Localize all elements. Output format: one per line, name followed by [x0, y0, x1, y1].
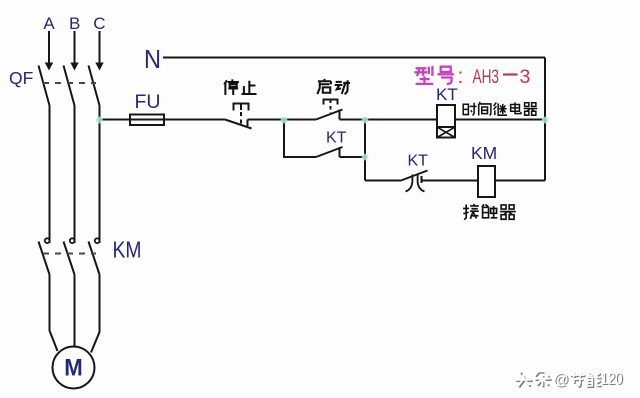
contact KT self-hold blade: [316, 147, 343, 157]
label KM main contacts: [113, 237, 142, 263]
label KT delay contact: [408, 153, 429, 170]
arrowhead phase A: [45, 63, 53, 71]
wire motor lead B: [74, 275, 76, 347]
wire phase C drop: [99, 31, 101, 63]
svg-text:QF: QF: [9, 68, 33, 88]
label motor M: [64, 355, 83, 382]
contactor KM pole 1 fixed contact hook: [45, 238, 50, 243]
wire phase C vertical: [99, 106, 101, 244]
pushbutton start actuator: [324, 100, 338, 114]
label phase C: [93, 14, 105, 33]
wire self-hold to mid vertical: [340, 156, 366, 158]
svg-text:AH3: AH3: [473, 66, 500, 88]
label QF: [9, 68, 33, 88]
svg-text:C: C: [93, 14, 105, 33]
svg-text:120: 120: [601, 370, 623, 388]
wire phase B drop: [74, 31, 76, 63]
fuse FU body: [130, 115, 164, 126]
label start button (qi dong): [317, 79, 350, 94]
wire through fuse: [130, 119, 164, 121]
contact KT time-delay fixed contact: [421, 176, 423, 183]
svg-text:KM: KM: [471, 143, 497, 163]
label AH3-3 model number: [458, 65, 531, 88]
node junction rail/KT coil: [542, 117, 549, 124]
contactor KM pole 1 blade: [39, 242, 50, 275]
node junction self-hold right: [362, 154, 369, 161]
svg-text:@: @: [553, 372, 569, 389]
wire right rail: [544, 58, 546, 181]
pushbutton stop blade: [225, 120, 252, 129]
arrowhead phase B: [70, 63, 78, 71]
label N: [144, 44, 161, 74]
svg-text:N: N: [144, 44, 161, 74]
contact KT time-delay blade: [401, 171, 428, 181]
svg-text:M: M: [64, 355, 83, 382]
KT time-delay symbol: [406, 175, 425, 192]
wire start to KT coil: [340, 119, 438, 121]
breaker QF pole 2 blade: [64, 66, 75, 106]
label phase A: [43, 14, 55, 33]
wire rung1 from C phase to fuse: [100, 119, 131, 121]
contactor KM pole 2 fixed contact hook: [70, 238, 75, 243]
svg-text::: :: [458, 65, 464, 88]
wire phase A vertical: [49, 106, 51, 244]
label phase B: [69, 14, 80, 33]
relay coil KT: [437, 105, 455, 127]
wire phase B vertical: [74, 106, 76, 244]
label stop button (ting zhi): [224, 79, 256, 95]
wire N line: [163, 57, 545, 59]
node junction self-hold left: [281, 117, 288, 124]
KM linkage dashed line: [43, 253, 96, 255]
watermark toutiao@jieneng120 shadow: [516, 371, 601, 387]
label contactor (jie chu qi): [463, 204, 516, 220]
watermark toutiao@jieneng120 white face: [515, 370, 600, 386]
label model number (xing hao): [414, 66, 454, 84]
wire mid vertical: [364, 120, 366, 181]
contactor KM pole 3 fixed contact hook: [95, 238, 100, 243]
svg-text:KT: KT: [408, 153, 429, 170]
wire self-hold branch left vertical: [284, 120, 316, 158]
pushbutton start blade: [316, 110, 343, 120]
contact KT self-hold fixed contact: [339, 147, 341, 157]
wire delay contact to KM coil: [422, 180, 479, 182]
svg-text:KT: KT: [326, 130, 347, 147]
breaker QF pole 1 blade: [39, 66, 50, 106]
svg-text:KT: KT: [436, 85, 458, 104]
contactor KM pole 2 blade: [64, 242, 75, 275]
wire phase A drop: [48, 31, 50, 63]
label KM coil: [471, 143, 497, 163]
pushbutton start fixed contact: [339, 110, 341, 120]
wire KM coil to rail: [495, 180, 545, 182]
breaker QF pole 3 blade: [89, 66, 100, 106]
arrowhead phase C: [95, 63, 103, 71]
pushbutton stop actuator: [234, 104, 249, 126]
label KT coil: [436, 85, 458, 104]
svg-text:KM: KM: [113, 237, 142, 263]
wire stop to start: [248, 119, 317, 121]
QF linkage dashed line: [43, 82, 96, 84]
node junction C/rung1: [96, 117, 103, 124]
pushbutton stop fixed contact: [247, 120, 249, 127]
svg-text:FU: FU: [135, 91, 161, 113]
label time relay (shi jian ji dian qi): [463, 102, 537, 115]
node junction start right: [362, 117, 369, 124]
svg-text:B: B: [69, 14, 80, 33]
wire motor lead C: [91, 275, 100, 353]
contactor coil KM: [478, 166, 495, 197]
motor M1 circle: [53, 347, 95, 389]
wire rung2 left: [365, 180, 401, 182]
wire motor lead A: [50, 275, 58, 352]
contactor KM pole 3 blade: [89, 242, 100, 275]
label FU: [135, 91, 161, 113]
wire fuse to stop button: [164, 119, 225, 121]
relay KT delay element box: [437, 127, 455, 138]
wire KT coil to rail: [455, 119, 545, 121]
label KT self-hold: [326, 130, 347, 147]
svg-text:A: A: [43, 14, 55, 33]
svg-text:3: 3: [520, 66, 531, 88]
